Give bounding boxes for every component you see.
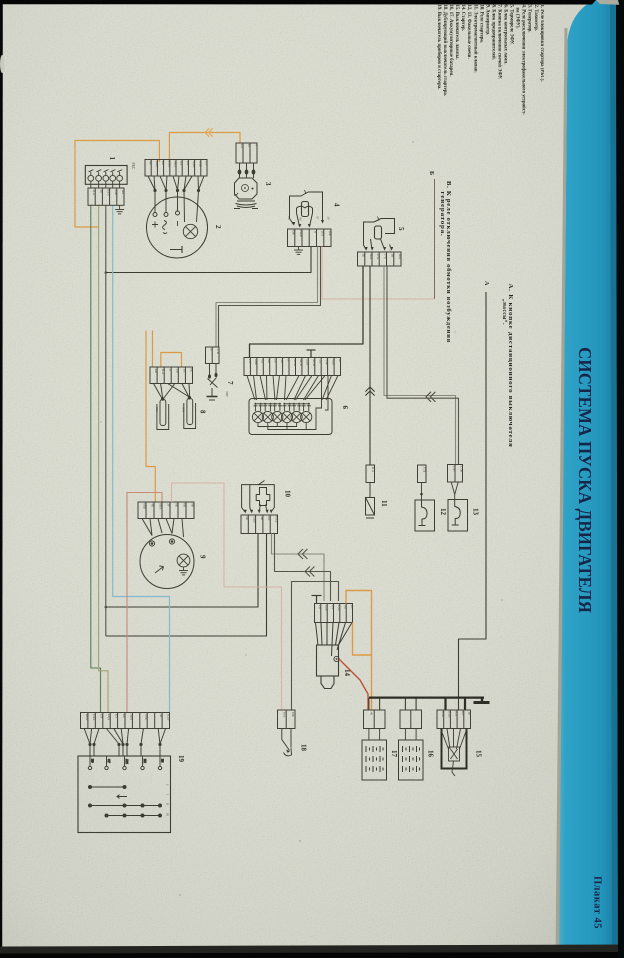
flare plug 12 connector xyxy=(418,465,427,483)
wire green relay1 pin2 to switch19 strip xyxy=(99,205,108,712)
starter relay 10 connector strip xyxy=(241,515,278,534)
wire break chevrons on valve wire xyxy=(365,387,374,396)
svg-text:КЗ: КЗ xyxy=(114,714,118,718)
flare plug 12 lead xyxy=(421,483,423,501)
switch 19 box xyxy=(78,756,171,833)
svg-text:9В: 9В xyxy=(344,605,348,610)
switch 19 position rows xyxy=(89,786,162,818)
svg-text:1ПА: 1ПА xyxy=(92,714,96,721)
generator 3 mount base xyxy=(234,201,258,209)
svg-text:+Б: +Б xyxy=(369,711,373,715)
battery 16 body xyxy=(399,740,424,780)
svg-text:7: 7 xyxy=(226,381,234,385)
svg-text:11. Электромагнитный клапан.: 11. Электромагнитный клапан. xyxy=(472,5,477,73)
svg-text:0Д: 0Д xyxy=(180,161,184,166)
svg-text:1А: 1А xyxy=(182,368,186,373)
svg-text:8ВА: 8ВА xyxy=(159,503,163,510)
svg-text:1Б: 1Б xyxy=(99,189,103,193)
svg-text:СТ: СТ xyxy=(107,759,111,763)
relay 1 terminal stems xyxy=(91,181,120,188)
svg-text:16А: 16А xyxy=(321,230,325,237)
svg-text:3Б: 3Б xyxy=(260,516,264,520)
svg-text:17: 17 xyxy=(390,750,398,758)
svg-text:1БД: 1БД xyxy=(398,253,402,260)
relay РБС 1 body xyxy=(85,166,127,185)
wire pink relay4 to node Б xyxy=(322,247,435,300)
svg-text:17Е: 17Е xyxy=(452,466,456,472)
fuse block 8 orange feed xyxy=(152,331,154,368)
svg-text:9Б: 9Б xyxy=(245,516,249,520)
tachometer 2 fan wires xyxy=(148,176,204,222)
ammeter 9 terminals xyxy=(149,539,174,546)
svg-text:19: 19 xyxy=(177,755,185,763)
svg-text:4БВ: 4БВ xyxy=(331,359,335,366)
solenoid valve 11 connector xyxy=(366,465,375,483)
wire red starter to battery xyxy=(339,659,368,710)
svg-text:3: 3 xyxy=(264,182,272,186)
tachometer 2 inner terminals xyxy=(153,211,180,217)
svg-text:60А: 60А xyxy=(182,407,186,413)
starter 14 connector strip xyxy=(315,604,353,623)
svg-text:+: + xyxy=(254,144,258,146)
svg-text:КЗВ: КЗВ xyxy=(448,711,452,718)
svg-text:1В: 1В xyxy=(318,605,322,610)
lamp block 6 connector strip xyxy=(244,358,341,376)
svg-text:17В: 17В xyxy=(216,348,220,355)
cyan title band xyxy=(558,0,618,958)
svg-text:8. Блок предохранителей.: 8. Блок предохранителей. xyxy=(490,5,495,60)
svg-text:II: II xyxy=(166,803,170,805)
svg-text:85: 85 xyxy=(287,217,291,221)
svg-text:10. Реле стартера.: 10. Реле стартера. xyxy=(478,5,483,44)
svg-text:2В: 2В xyxy=(161,161,165,166)
svg-text:I: I xyxy=(166,794,170,795)
node Б lead wire xyxy=(434,179,436,299)
svg-text:Ш: Ш xyxy=(240,144,244,148)
wire brown branch to starter relay10 pin3 xyxy=(106,534,258,608)
starter relay 10 coil pins xyxy=(259,505,267,513)
svg-text:8Г: 8Г xyxy=(286,359,290,363)
svg-text:5ДБ: 5ДБ xyxy=(325,359,329,365)
lamp block 6 housing xyxy=(249,399,332,435)
svg-text:13: 13 xyxy=(472,508,480,516)
svg-text:7ГБ: 7ГБ xyxy=(144,714,148,720)
tachometer 2 connector strip xyxy=(145,160,207,177)
starter relay 10 coil xyxy=(256,488,270,506)
svg-text:9Б: 9Б xyxy=(191,503,195,507)
legend list items 1-19 xyxy=(436,5,544,116)
thermal relay 5 loop xyxy=(364,219,395,250)
relay 4 contact lever xyxy=(301,192,308,196)
svg-text:1Б: 1Б xyxy=(362,253,366,257)
svg-text:ФСК: ФСК xyxy=(293,359,297,367)
svg-text:ВК: ВК xyxy=(143,759,147,763)
instrument starter switch 19 connector strip xyxy=(81,713,170,729)
svg-text:5. Термореле ЭФУ.: 5. Термореле ЭФУ. xyxy=(509,5,514,45)
svg-text:РБС: РБС xyxy=(131,163,135,170)
svg-text:16, 17. Аккумуляторные батареи: 16, 17. Аккумуляторные батареи. xyxy=(448,5,453,77)
wire pair relay5 to flare plug 13 xyxy=(384,266,456,465)
svg-text:30: 30 xyxy=(159,714,163,718)
wire orange jog at starter xyxy=(353,623,372,656)
starter 14 ground T xyxy=(312,596,322,604)
generator 3 body xyxy=(235,178,258,199)
relay 1 ground xyxy=(119,205,121,209)
wire battery interconnect stubs xyxy=(368,698,370,710)
flare plug 13 leads xyxy=(451,482,455,495)
svg-text:1А: 1А xyxy=(248,359,252,364)
battery 16 leads xyxy=(404,729,406,741)
wire break chevrons run1 xyxy=(298,549,307,559)
svg-text:В1А: В1А xyxy=(107,189,111,196)
tachometer 2 tick mark xyxy=(177,221,179,226)
wire break chevrons on orange top link xyxy=(205,128,213,136)
starter relay 10 outer loop xyxy=(242,485,275,512)
lamp block 6 fan wires xyxy=(247,376,338,401)
ammeter 9 connector strip xyxy=(138,502,194,519)
svg-text:ПДУ: ПДУ xyxy=(166,714,170,722)
svg-text:2Г: 2Г xyxy=(167,503,171,507)
thick ground bus wire xyxy=(369,696,484,698)
svg-text:30А: 30А xyxy=(155,407,159,413)
svg-text:4БА: 4БА xyxy=(155,161,159,168)
relay 4 contact loop xyxy=(290,192,323,227)
svg-text:17А: 17А xyxy=(376,253,380,260)
svg-text:10Б: 10Б xyxy=(291,711,295,717)
svg-text:5ДВ: 5ДВ xyxy=(253,516,257,523)
svg-text:Б: Б xyxy=(428,171,435,175)
lamp block 6 ground T xyxy=(307,350,316,358)
wire blue relay1 pin4 to switch19 strip xyxy=(113,205,170,712)
svg-text:III: III xyxy=(166,813,170,816)
fuse block 8 fan wires xyxy=(154,384,191,401)
svg-text:87: 87 xyxy=(316,217,320,221)
svg-text:11А: 11А xyxy=(161,368,165,374)
starter 14 motor body xyxy=(317,645,339,689)
lamp switch 15 connector xyxy=(437,710,471,729)
svg-text:12: 12 xyxy=(439,508,447,516)
button 7 contact symbol xyxy=(207,364,218,401)
svg-text:15. Выключатель лампы.: 15. Выключатель лампы. xyxy=(454,5,459,60)
node А lead wire to lamp switch 15 xyxy=(459,292,487,710)
flare plug 13 connector xyxy=(448,465,463,483)
svg-text:18: 18 xyxy=(300,744,308,752)
svg-text:ВКБ: ВКБ xyxy=(299,230,303,237)
svg-text:4ВБ: 4ВБ xyxy=(254,359,258,365)
svg-text:СИСТЕМА ПУСКА ДВИГАТЕЛЯ: СИСТЕМА ПУСКА ДВИГАТЕЛЯ xyxy=(575,347,595,613)
svg-text:4Б: 4Б xyxy=(151,503,155,507)
starter 14 terminal xyxy=(334,656,339,661)
flare plug 12 body xyxy=(415,500,435,531)
svg-text:КЗГ: КЗГ xyxy=(454,711,458,717)
left edge light speck xyxy=(0,55,4,73)
svg-text:5Г: 5Г xyxy=(168,368,172,372)
svg-text:6К: 6К xyxy=(183,503,187,508)
svg-text:5: 5 xyxy=(397,227,405,231)
thermal relay 5 contact lever xyxy=(374,219,381,223)
svg-text:9ЛБ: 9ЛБ xyxy=(198,161,202,167)
battery 17 connector xyxy=(364,710,386,729)
wire break chevrons on flare plug pair xyxy=(426,392,435,402)
svg-text:10Г: 10Г xyxy=(186,161,190,167)
svg-text:17: 17 xyxy=(209,348,213,352)
starter relay 10 contact lever xyxy=(258,481,265,486)
svg-text:4В: 4В xyxy=(267,359,271,364)
svg-text:1Ж: 1Ж xyxy=(175,368,179,374)
svg-text:1: 1 xyxy=(108,157,116,161)
svg-text:11А: 11А xyxy=(371,466,375,472)
wire orange battery to starter strip xyxy=(346,591,372,711)
svg-text:86: 86 xyxy=(299,218,303,222)
svg-text:1Г: 1Г xyxy=(313,230,317,234)
relay 4 connector strip xyxy=(288,229,332,247)
duplicate starter switch 18 lever xyxy=(282,729,292,756)
lamp block 6 contact bus dots xyxy=(254,403,309,405)
svg-text:А: А xyxy=(483,281,490,286)
band left shadow edge xyxy=(556,28,568,958)
svg-text:9Л: 9Л xyxy=(204,161,208,166)
wire pink ammeter to switch19 strip xyxy=(127,493,162,713)
svg-text:6Б: 6Б xyxy=(190,368,194,372)
svg-text:6: 6 xyxy=(341,406,349,410)
thermal relay 5 connector strip xyxy=(358,252,402,266)
tachometer 2 dial circle xyxy=(147,197,208,258)
fuse block 8 orange jumper xyxy=(161,353,182,368)
svg-text:10: 10 xyxy=(284,490,292,498)
svg-text:2. Тахометр.: 2. Тахометр. xyxy=(533,5,538,31)
svg-text:3. Генератор.: 3. Генератор. xyxy=(527,5,532,33)
svg-text:АМ: АМ xyxy=(125,759,129,764)
svg-text:1БА: 1БА xyxy=(369,253,373,260)
svg-text:15: 15 xyxy=(475,750,483,758)
switch 19 fan wires xyxy=(84,729,165,757)
svg-text:17Д: 17Д xyxy=(422,466,426,473)
thermal relay 5 coil xyxy=(375,226,382,239)
svg-text:18. Дублирующий выключатель ст: 18. Дублирующий выключатель стартера. xyxy=(442,5,447,96)
relay 4 pin arrowheads xyxy=(292,220,324,228)
svg-text:6. Блок контрольных ламп.: 6. Блок контрольных ламп. xyxy=(503,5,508,65)
svg-text:„массы“.: „массы“. xyxy=(501,299,508,325)
svg-text:8АБ: 8АБ xyxy=(274,516,278,522)
wire break chevrons run2 xyxy=(305,567,314,577)
svg-text:ПР: ПР xyxy=(91,759,95,763)
svg-text:20Б: 20Б xyxy=(114,189,118,195)
svg-text:8Б: 8Б xyxy=(175,503,179,507)
svg-text:1П: 1П xyxy=(100,714,104,719)
massa terminal T xyxy=(474,698,490,703)
svg-text:10А: 10А xyxy=(282,711,286,718)
wire green relay1 pin1 to switch19 strip xyxy=(91,205,101,712)
wire dark relay5 to lamp block 6 xyxy=(250,266,364,358)
svg-text:8: 8 xyxy=(199,410,207,414)
svg-text:11: 11 xyxy=(380,500,388,507)
wire starter strip to duplicate switch 18 xyxy=(292,582,339,711)
generator 3 lead wires xyxy=(238,163,255,178)
svg-text:ва (ЭФУ).: ва (ЭФУ). xyxy=(515,8,520,29)
svg-text:8Д: 8Д xyxy=(331,605,335,610)
svg-text:КЗ: КЗ xyxy=(161,759,165,763)
svg-text:5Д: 5Д xyxy=(319,359,323,364)
svg-text:1Б: 1Б xyxy=(468,711,472,715)
svg-text:ФСБ: ФСБ xyxy=(299,359,303,366)
svg-text:4: 4 xyxy=(333,203,341,207)
svg-text:1Ж: 1Ж xyxy=(154,368,158,374)
relay 4 ground xyxy=(298,247,300,251)
tachometer 2 wave mark xyxy=(163,221,167,234)
svg-text:1БД: 1БД xyxy=(107,714,111,721)
tachometer 2 plus mark xyxy=(152,222,158,228)
lamp switch 15 body xyxy=(442,729,467,769)
solenoid valve 11 body xyxy=(366,483,375,519)
svg-text:1ГА: 1ГА xyxy=(337,605,341,611)
svg-text:5В: 5В xyxy=(280,359,284,364)
svg-text:4Д: 4Д xyxy=(261,359,265,364)
svg-text:2: 2 xyxy=(214,225,222,229)
svg-text:5ДА: 5ДА xyxy=(306,359,310,366)
svg-text:17Б: 17Б xyxy=(383,253,387,259)
wire brown relay1 pin3 trunk xyxy=(105,205,107,636)
svg-text:5ВА: 5ВА xyxy=(129,714,133,721)
switch 19 inner terminals xyxy=(88,756,164,770)
svg-text:4Г: 4Г xyxy=(338,359,342,363)
battery 17 leads xyxy=(368,729,370,741)
svg-text:16: 16 xyxy=(427,750,435,758)
wire orange relay1 left loop xyxy=(75,141,159,228)
svg-text:1В: 1В xyxy=(391,253,395,258)
svg-text:1Б: 1Б xyxy=(122,714,126,718)
svg-text:9: 9 xyxy=(199,555,207,559)
battery 17 body xyxy=(362,740,387,780)
svg-text:14. Стартер.: 14. Стартер. xyxy=(460,5,465,31)
svg-text:ВК: ВК xyxy=(292,230,296,235)
svg-text:генератора.: генератора. xyxy=(439,192,446,237)
wire brown elbow to starter relay10 pin4 xyxy=(106,534,267,637)
wire relay10 to starter strip run2 xyxy=(275,534,331,602)
button 7 connector strip xyxy=(206,347,220,364)
wire relay10 to starter strip run1 xyxy=(272,534,325,602)
wire brown branch to relay4 xyxy=(106,247,311,273)
starter 14 funnel xyxy=(316,623,353,657)
svg-text:12, 13. Факельные свечи.: 12, 13. Факельные свечи. xyxy=(466,5,471,59)
svg-text:2ВБ: 2ВБ xyxy=(325,605,329,611)
fuse block 8 fuse B xyxy=(187,399,193,425)
ammeter 9 lamp ground xyxy=(183,567,185,571)
ammeter 9 dial circle xyxy=(140,535,194,589)
starter relay 10 pin arrowheads xyxy=(244,510,273,514)
svg-text:ФСВ: ФСВ xyxy=(312,359,316,367)
svg-text:КЗБ: КЗБ xyxy=(441,711,445,717)
generator 3 connector strip xyxy=(236,143,257,163)
svg-text:0ДА: 0ДА xyxy=(192,161,196,168)
svg-text:17Ж: 17Ж xyxy=(459,466,463,474)
flare plug 13 body xyxy=(448,500,468,532)
wire dark relay5 to solenoid valve 11 xyxy=(369,266,371,465)
battery 16 connector xyxy=(400,710,422,729)
svg-text:1БГ: 1БГ xyxy=(121,189,125,195)
svg-text:2Б: 2Б xyxy=(274,359,278,363)
ammeter 9 needle mark xyxy=(155,566,164,573)
svg-text:4. Реле расключения электрофак: 4. Реле расключения электрофакельного ус… xyxy=(521,5,526,116)
svg-text:16: 16 xyxy=(350,605,354,609)
svg-text:КЗ: КЗ xyxy=(461,711,465,715)
lamp block 6 lamp contacts xyxy=(253,405,310,411)
svg-text:9. Амперметр.: 9. Амперметр. xyxy=(484,5,489,36)
svg-text:ЭФУ: ЭФУ xyxy=(225,391,228,397)
ammeter 9 fan wires xyxy=(142,519,184,538)
lamp block 6 lamps xyxy=(252,411,263,422)
svg-text:1. Реле блокировки стартера (Р: 1. Реле блокировки стартера (РБС). xyxy=(539,5,544,82)
svg-text:8А: 8А xyxy=(267,516,271,521)
tachometer 2 T mark xyxy=(170,246,182,253)
svg-text:30: 30 xyxy=(327,217,331,221)
relay 1 connector strip xyxy=(88,188,124,205)
svg-text:6КБ: 6КБ xyxy=(143,503,147,509)
thermal relay 5 pin arrowheads xyxy=(365,247,394,251)
svg-text:7. Кнопка включения свечей ЭФУ: 7. Кнопка включения свечей ЭФУ. xyxy=(496,5,501,80)
duplicate starter switch 18 connector xyxy=(278,710,296,729)
photo black frame edges xyxy=(0,0,596,5)
fuse block 8 fuse A xyxy=(160,400,166,426)
lamp block 6 bottom bus xyxy=(258,376,328,430)
thick bus stubs to lamp switch xyxy=(444,699,446,711)
relay 4 coil xyxy=(302,202,309,217)
svg-text:ВПР: ВПР xyxy=(85,714,89,721)
svg-text:4Б: 4Б xyxy=(149,161,153,165)
relay 1 terminals xyxy=(88,170,123,182)
lamp switch 15 inner box xyxy=(441,729,468,777)
svg-text:11А: 11А xyxy=(92,189,96,195)
svg-text:6КЛ: 6КЛ xyxy=(173,161,177,168)
svg-text:Плакат 45: Плакат 45 xyxy=(592,876,603,929)
ammeter 9 lamp xyxy=(177,554,190,567)
wire orange fuse block bypass to ammeter xyxy=(146,331,155,503)
svg-text:16Б: 16Б xyxy=(328,230,332,236)
svg-text:2ВА: 2ВА xyxy=(167,161,171,168)
svg-text:19. Выключатель приборов и ста: 19. Выключатель приборов и стартера. xyxy=(436,5,441,90)
tachometer 2 lamp xyxy=(183,224,197,238)
photo dust specks xyxy=(100,141,503,896)
wire orange tachometer to generator xyxy=(169,133,240,163)
wire gray pair relay4 to button7 xyxy=(216,247,318,348)
fuse block 8 connector strip xyxy=(150,367,193,384)
wire pink ammeter to duplicate switch 18 xyxy=(172,483,282,710)
